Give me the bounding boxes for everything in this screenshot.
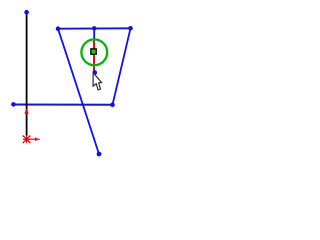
origin symbol: knobs at star spoke tips	[23, 135, 31, 143]
node: corner dot D right end of horizontal line	[110, 103, 115, 108]
node: endpoint dot E bottom of diagonal	[97, 152, 102, 157]
node: midpoint dot M on top edge	[92, 26, 97, 31]
origin symbol: X axis arrowhead (red, pointing right)	[35, 137, 39, 141]
node: corner dot B top-right	[128, 26, 133, 31]
wire: vertical segment blue upper part from midpoint M	[93, 29, 95, 41]
node: endpoint dot at bottom of red segment (drawn over cursor tip)	[93, 70, 98, 75]
wire: long diagonal from A down to E	[58, 29, 99, 154]
edge line: black vertical model edge	[26, 14, 28, 136]
wire: vertical segment red highlighted part	[93, 39, 95, 72]
origin symbol: asterisk star at origin point	[23, 135, 30, 142]
node: endpoint dot top of black edge	[24, 10, 29, 15]
node: corner dot A top-left	[56, 26, 61, 31]
wire: long horizontal sketch line from F to D	[13, 104, 112, 106]
origin symbol: X axis tail tick past arrowhead	[38, 138, 40, 140]
wire: right slanted edge from B down to D	[113, 28, 131, 105]
green highlight circle around midpoint marker	[81, 39, 107, 65]
cursor arrow pointer	[93, 73, 102, 90]
wire: top edge of quad from A to B	[58, 27, 131, 29]
origin symbol: Y axis arrowhead (red, pointing up)	[24, 108, 28, 114]
origin symbol: X axis shaft (red)	[27, 138, 36, 140]
midpoint relation marker square	[91, 49, 96, 54]
node: endpoint dot left end of horizontal line F	[11, 102, 16, 107]
